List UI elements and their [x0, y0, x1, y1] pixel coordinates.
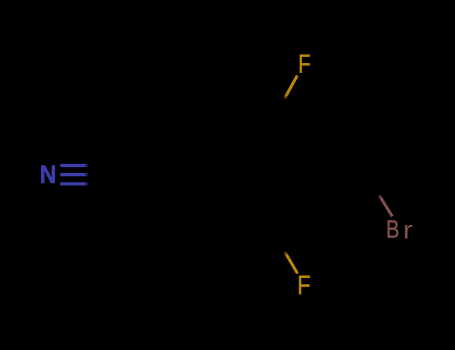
- nitrile triple bond C#N : line 1 (top): [60, 164, 89, 167]
- nitrile triple bond C#N : line 2 (middle): [60, 173, 89, 176]
- bond ring C5 to bottom F (visible olive half): [284, 251, 297, 274]
- nitrile nitrogen atom label N: [41, 166, 55, 183]
- bromine atom label letter B: [388, 220, 399, 237]
- nitrile triple bond C#N : line 3 (bottom): [60, 182, 89, 185]
- bottom fluorine atom label F: [299, 276, 310, 294]
- bond ring C3 to top F (visible olive half): [284, 76, 297, 100]
- bromine atom label letter r: [405, 225, 413, 239]
- top fluorine atom label F: [300, 55, 310, 73]
- bond CH2 to Br (visible dark red half): [379, 194, 393, 217]
